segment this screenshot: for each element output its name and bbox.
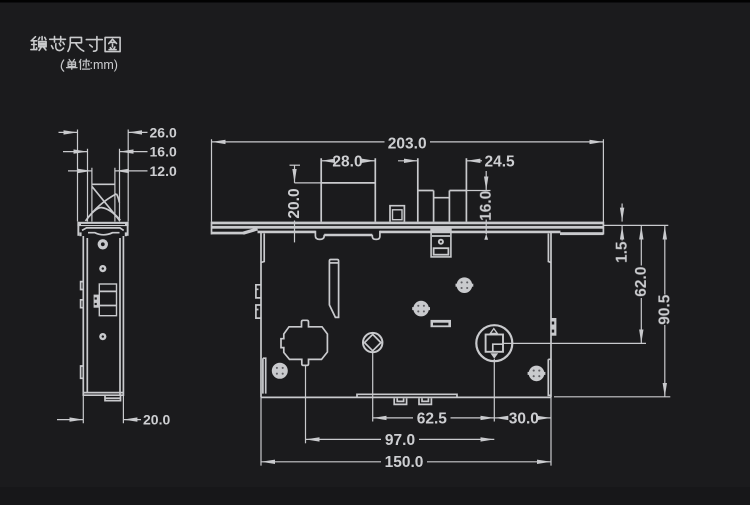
svg-text:16.0: 16.0 bbox=[150, 144, 177, 160]
cap end strips bbox=[77, 222, 79, 236]
svg-text:62.5: 62.5 bbox=[417, 410, 448, 427]
left wall tab 2 bbox=[256, 305, 261, 318]
svg-text:20.0: 20.0 bbox=[286, 188, 303, 218]
case right wall bbox=[550, 232, 552, 398]
dim 16.0 vertical bbox=[485, 171, 487, 191]
dim 203.0 bbox=[212, 139, 604, 221]
hanging box below plate (top center) bbox=[431, 229, 451, 257]
dim 97.0 bbox=[306, 438, 382, 440]
screw boss donuts bbox=[456, 277, 474, 293]
tab 28mm bbox=[321, 158, 375, 221]
dim 24.5 bbox=[398, 160, 418, 162]
leader for 16.0 arrow bbox=[466, 190, 490, 192]
dim 150.0 bbox=[261, 461, 381, 463]
faceplate cap bar bbox=[77, 222, 128, 226]
dim 12.0 bbox=[68, 170, 92, 172]
title 锁芯尺寸图 (drawn strokes) bbox=[31, 37, 46, 51]
slot (pen nib) bbox=[329, 260, 338, 318]
plate left lip bbox=[212, 232, 245, 235]
svg-text:203.0: 203.0 bbox=[388, 136, 427, 153]
leader for 20.0 arrow bbox=[295, 182, 322, 184]
dim 28.0 bbox=[321, 160, 329, 162]
svg-text:16.0: 16.0 bbox=[478, 191, 495, 221]
case top edge step seg2 bbox=[324, 234, 372, 237]
hook 1 bbox=[315, 231, 324, 240]
hub (handle follower) bbox=[281, 320, 327, 365]
mid section bbox=[434, 191, 450, 222]
dim 62.0 bbox=[640, 226, 642, 266]
tab B bbox=[449, 158, 466, 221]
case top edge seg3 bbox=[380, 231, 561, 234]
cylinder hole bbox=[476, 325, 512, 361]
cap trapezoid bbox=[82, 228, 124, 231]
top plate band upper bbox=[212, 222, 604, 225]
right wall inner top segment bbox=[548, 234, 551, 263]
right wall tab bbox=[551, 318, 556, 336]
svg-text:20.0: 20.0 bbox=[143, 412, 170, 428]
plate left end bbox=[211, 222, 213, 235]
plate right end bbox=[602, 222, 604, 235]
ext lines bbox=[305, 366, 307, 444]
latch bolt top line bbox=[92, 183, 115, 185]
hook 2 bbox=[372, 231, 380, 240]
tab cluster 24.5 : tab A bbox=[418, 158, 434, 221]
svg-text:30.0: 30.0 bbox=[509, 410, 539, 427]
case left wall bbox=[260, 232, 262, 398]
latch bolt outer sides (16.0) bbox=[88, 149, 120, 222]
screw hole small 2 bbox=[99, 333, 106, 340]
dim 20.0 vertical bbox=[290, 164, 301, 166]
svg-text:62.0: 62.0 bbox=[633, 267, 650, 297]
dim 16.0 bbox=[63, 151, 88, 153]
leader 62.0 bbox=[504, 342, 646, 344]
dim 20.0 (left view bottom) bbox=[83, 396, 123, 423]
body bottom bbox=[83, 393, 123, 396]
inner strip bottom-left bbox=[263, 358, 266, 393]
top leader bbox=[604, 224, 668, 226]
latch bevel curves bbox=[92, 187, 120, 221]
left wall inner top segment bbox=[261, 234, 264, 263]
case bottom bbox=[261, 396, 551, 398]
diamond circle bbox=[363, 333, 382, 352]
svg-text:150.0: 150.0 bbox=[385, 454, 424, 471]
small square tab bbox=[390, 206, 404, 222]
dim 26.0 bbox=[59, 131, 78, 133]
plate right lip bbox=[560, 232, 603, 235]
svg-text:1.5: 1.5 bbox=[614, 241, 631, 263]
svg-text:28.0: 28.0 bbox=[332, 154, 362, 171]
bottom hook B bbox=[419, 398, 431, 404]
dim 26.0 extension lines bbox=[78, 130, 129, 222]
inner strip bottom-right bbox=[548, 359, 551, 395]
svg-text:24.5: 24.5 bbox=[485, 154, 516, 171]
svg-text:12.0: 12.0 bbox=[150, 163, 177, 179]
subtitle (单位:mm) bbox=[61, 59, 89, 71]
screw hole donut top bbox=[98, 239, 108, 249]
dim 90.5 bbox=[664, 226, 666, 295]
bottom foot bbox=[105, 395, 121, 400]
bottom hook A bbox=[394, 398, 406, 404]
dim 30.0 bbox=[494, 417, 507, 419]
cap lower line with latch arc bbox=[88, 233, 120, 235]
left wall tab 1 bbox=[256, 285, 261, 298]
svg-text:90.5: 90.5 bbox=[656, 294, 673, 325]
screw hole small 1 bbox=[99, 265, 106, 272]
dim 1.5 bbox=[621, 204, 623, 222]
bottom right leader bbox=[554, 396, 670, 398]
body outer walls bbox=[82, 236, 84, 396]
top plate band lower bbox=[212, 226, 604, 229]
svg-text:26.0: 26.0 bbox=[150, 124, 177, 140]
case top edge seg1 bbox=[258, 231, 316, 234]
lip chamfer left bbox=[243, 229, 257, 233]
left wall bumps bbox=[81, 282, 84, 379]
side mechanism block bbox=[99, 284, 116, 316]
svg-text::mm): :mm) bbox=[90, 58, 118, 72]
body inner lines bbox=[86, 238, 88, 392]
dim 62.5 bbox=[373, 417, 413, 419]
svg-text:97.0: 97.0 bbox=[385, 432, 415, 449]
small slot rect bbox=[431, 320, 452, 327]
bottom tab plate bbox=[357, 394, 457, 397]
latch inner sides (12.0) bbox=[92, 168, 115, 222]
